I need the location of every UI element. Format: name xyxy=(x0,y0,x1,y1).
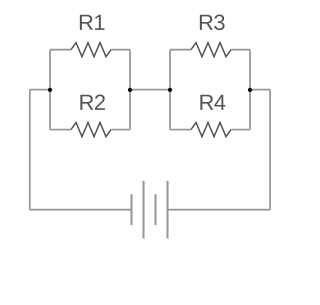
wire middle connector xyxy=(130,89,170,91)
wire R4 right lead xyxy=(231,129,250,131)
wire R2 left lead xyxy=(50,129,71,131)
node B xyxy=(128,88,132,92)
label R1 xyxy=(80,15,93,30)
wire left block right vertical xyxy=(129,50,131,130)
label R3 xyxy=(200,15,213,30)
battery V1 short plate 2 xyxy=(154,194,156,225)
resistor R1 xyxy=(71,43,111,57)
wire right block right vertical xyxy=(249,50,251,130)
wire node A to outer left xyxy=(30,89,50,91)
label R2 xyxy=(80,95,93,110)
resistor R4 xyxy=(191,123,231,137)
battery V1 long plate 1 xyxy=(142,181,144,239)
wire R3 right lead xyxy=(231,49,250,51)
wire R4 left lead xyxy=(170,129,191,131)
wire R3 left lead xyxy=(170,49,191,51)
wire outer left vertical xyxy=(29,90,31,210)
node A xyxy=(48,88,52,92)
wire R2 right lead xyxy=(111,129,130,131)
wire R1 left lead xyxy=(50,49,71,51)
wire right block left vertical xyxy=(169,50,171,130)
wire left block left vertical xyxy=(49,50,51,130)
wire bottom left to battery xyxy=(30,209,132,211)
resistor R3 xyxy=(191,43,231,57)
wire outer right vertical xyxy=(269,90,271,210)
resistor R2 xyxy=(71,123,111,137)
label R4 xyxy=(200,95,213,110)
wire R1 right lead xyxy=(111,49,130,51)
node C xyxy=(168,88,172,92)
battery V1 short plate 1 xyxy=(130,194,132,225)
wire bottom right from battery xyxy=(168,209,271,211)
battery V1 long plate 2 xyxy=(166,181,168,239)
wire node D to outer right xyxy=(250,89,270,91)
node D xyxy=(248,88,252,92)
